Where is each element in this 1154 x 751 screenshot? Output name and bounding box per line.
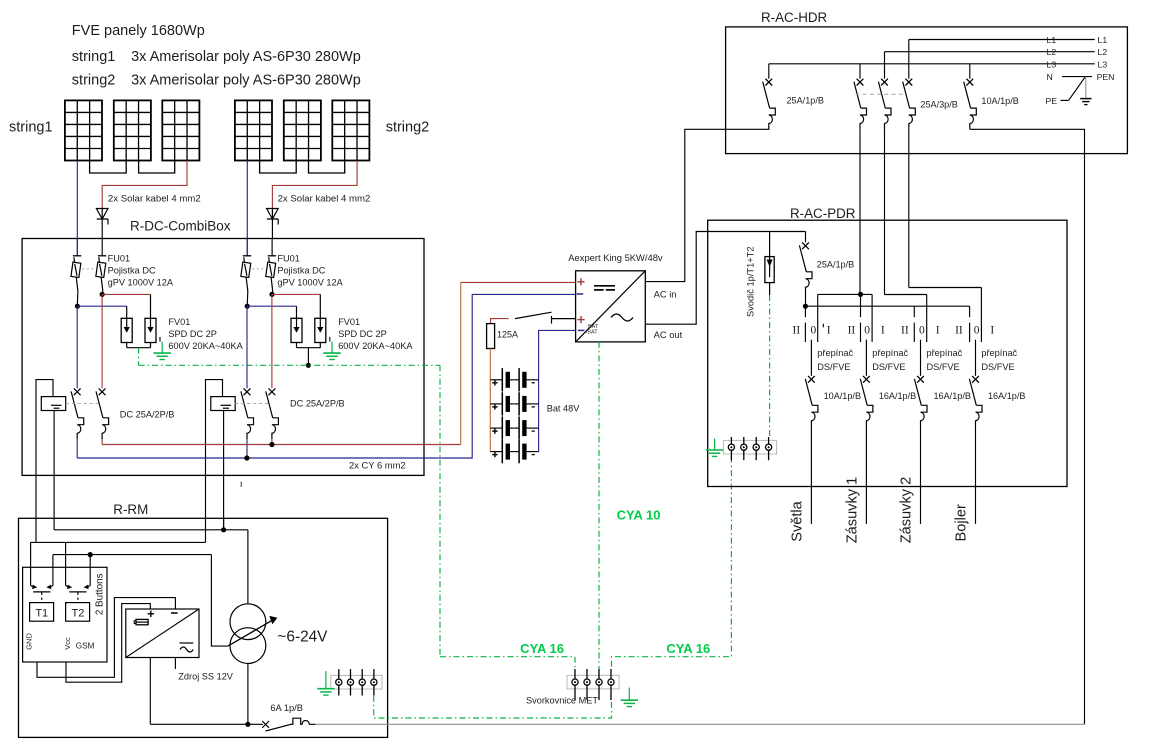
svg-text:R-AC-PDR: R-AC-PDR: [790, 206, 856, 221]
svg-text:gPV 1000V 12A: gPV 1000V 12A: [277, 278, 343, 288]
svg-text:0: 0: [919, 325, 925, 337]
svg-text:6A 1p/B: 6A 1p/B: [270, 703, 303, 713]
svg-text:2x Solar kabel 4 mm2: 2x Solar kabel 4 mm2: [278, 194, 371, 205]
svg-text:Bat 48V: Bat 48V: [547, 404, 581, 414]
svg-text:T1: T1: [35, 608, 48, 620]
svg-text:GND: GND: [25, 633, 34, 650]
svg-text:0: 0: [811, 325, 817, 337]
svg-text:25A/3p/B: 25A/3p/B: [920, 100, 957, 110]
svg-text:FV01: FV01: [168, 317, 190, 327]
svg-text:string1: string1: [72, 49, 116, 65]
svg-text:10A/1p/B: 10A/1p/B: [981, 96, 1018, 106]
svg-text:Svodič 1p/T1+T2: Svodič 1p/T1+T2: [746, 246, 756, 317]
svg-text:II: II: [848, 325, 856, 337]
svg-text:2 Buttons: 2 Buttons: [95, 573, 106, 615]
svg-text:AC in: AC in: [654, 289, 677, 300]
svg-text:Zásuvky 1: Zásuvky 1: [844, 477, 860, 544]
svg-text:DS/FVE: DS/FVE: [981, 362, 1014, 372]
svg-text:16A/1p/B: 16A/1p/B: [988, 391, 1025, 401]
svg-text:0: 0: [974, 325, 980, 337]
svg-text:přepínač: přepínač: [872, 348, 908, 358]
svg-text:Zdroj SS 12V: Zdroj SS 12V: [178, 672, 234, 682]
svg-text:DS/FVE: DS/FVE: [872, 362, 905, 372]
svg-text:Pojistka DC: Pojistka DC: [277, 265, 325, 275]
svg-text:string2: string2: [72, 72, 116, 88]
svg-text:2x CY 6 mm2: 2x CY 6 mm2: [349, 460, 406, 471]
svg-text:Svorkovnice MET: Svorkovnice MET: [526, 696, 598, 706]
svg-text:SPD DC 2P: SPD DC 2P: [338, 329, 387, 339]
svg-text:DS/FVE: DS/FVE: [927, 362, 960, 372]
svg-text:L3: L3: [1047, 59, 1057, 69]
svg-text:CYA 16: CYA 16: [520, 641, 564, 656]
svg-text:T2: T2: [71, 608, 84, 620]
svg-text:Pojistka DC: Pojistka DC: [108, 265, 156, 275]
svg-text:FV01: FV01: [338, 317, 360, 327]
svg-text:Světla: Světla: [789, 500, 805, 541]
svg-text:CYA 16: CYA 16: [666, 641, 710, 656]
svg-text:Bojler: Bojler: [954, 504, 970, 541]
svg-text:N: N: [1047, 72, 1053, 82]
svg-text:L1: L1: [1098, 35, 1108, 45]
svg-text:~6-24V: ~6-24V: [277, 629, 328, 646]
svg-text:PE: PE: [1046, 96, 1058, 106]
svg-text:I: I: [881, 325, 885, 337]
svg-text:II: II: [793, 325, 801, 337]
svg-text:gPV 1000V 12A: gPV 1000V 12A: [108, 278, 174, 288]
svg-text:FU01: FU01: [277, 253, 299, 263]
svg-text:Aexpert King 5KW/48v: Aexpert King 5KW/48v: [568, 252, 663, 263]
svg-text:DS/FVE: DS/FVE: [817, 362, 850, 372]
svg-text:16A/1p/B: 16A/1p/B: [879, 391, 916, 401]
svg-text:600V 20KA~40KA: 600V 20KA~40KA: [168, 341, 243, 351]
svg-text:L2: L2: [1098, 47, 1108, 57]
svg-text:GSM: GSM: [76, 642, 95, 651]
svg-text:I: I: [936, 325, 940, 337]
svg-text:R-AC-HDR: R-AC-HDR: [761, 10, 828, 25]
svg-text:3x Amerisolar poly AS-6P30 280: 3x Amerisolar poly AS-6P30 280Wp: [131, 49, 361, 65]
svg-text:10A/1p/B: 10A/1p/B: [824, 391, 861, 401]
svg-text:DC 25A/2P/B: DC 25A/2P/B: [290, 399, 345, 409]
svg-text:125A: 125A: [497, 330, 518, 340]
svg-text:string1: string1: [9, 120, 53, 136]
svg-text:3x Amerisolar poly AS-6P30 280: 3x Amerisolar poly AS-6P30 280Wp: [131, 72, 361, 88]
svg-text:2x Solar kabel 4 mm2: 2x Solar kabel 4 mm2: [108, 194, 201, 205]
svg-text:L3: L3: [1098, 59, 1108, 69]
svg-text:II: II: [955, 325, 963, 337]
svg-text:I: I: [827, 325, 831, 337]
svg-text:25A/1p/B: 25A/1p/B: [787, 96, 824, 106]
svg-text:CYA 10: CYA 10: [617, 508, 661, 523]
svg-text:přepínač: přepínač: [981, 348, 1017, 358]
svg-text:600V 20KA~40KA: 600V 20KA~40KA: [338, 341, 413, 351]
svg-text:FU01: FU01: [108, 253, 130, 263]
svg-text:R-RM: R-RM: [113, 502, 148, 517]
svg-text:přepínač: přepínač: [817, 348, 853, 358]
svg-text:přepínač: přepínač: [927, 348, 963, 358]
svg-text:Zásuvky 2: Zásuvky 2: [899, 477, 915, 544]
svg-text:L2: L2: [1047, 47, 1057, 57]
svg-text:R-DC-CombiBox: R-DC-CombiBox: [130, 219, 231, 234]
svg-text:II: II: [901, 325, 909, 337]
svg-text:AC out: AC out: [654, 329, 683, 340]
svg-text:I: I: [990, 325, 994, 337]
svg-text:SPD DC 2P: SPD DC 2P: [168, 329, 217, 339]
svg-text:PEN: PEN: [1097, 72, 1115, 82]
svg-text:16A/1p/B: 16A/1p/B: [934, 391, 971, 401]
svg-text:string2: string2: [386, 120, 430, 136]
svg-text:L1: L1: [1047, 35, 1057, 45]
svg-text:25A/1p/B: 25A/1p/B: [817, 260, 854, 270]
svg-text:0: 0: [864, 325, 870, 337]
svg-text:DC 25A/2P/B: DC 25A/2P/B: [120, 410, 175, 420]
svg-text:FVE panely 1680Wp: FVE panely 1680Wp: [72, 23, 205, 39]
svg-text:-BAT: -BAT: [586, 330, 599, 336]
svg-text:Vcc: Vcc: [63, 637, 72, 650]
